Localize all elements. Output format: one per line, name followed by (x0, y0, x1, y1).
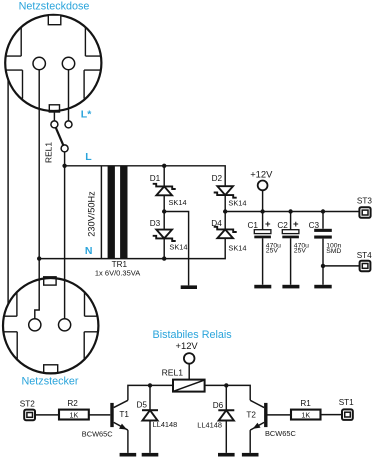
svg-text:ST3: ST3 (357, 196, 372, 205)
svg-text:R2: R2 (67, 399, 78, 408)
svg-text:25V: 25V (294, 247, 307, 254)
transformer TR1 primary side line (100, 166, 102, 259)
relay contact REL1 pole (61, 145, 68, 152)
wire: R2 to T1 base (89, 414, 111, 416)
svg-text:SMD: SMD (326, 248, 341, 255)
transistor T1 (BCW65C) (110, 403, 113, 427)
wire N bottom rail (39, 238, 225, 258)
connector ST1 (342, 409, 353, 420)
terminal +12V (relay) (184, 353, 195, 364)
plug pin right (59, 319, 71, 331)
wire +12V rail (225, 211, 359, 213)
svg-text:C2: C2 (277, 221, 288, 230)
wire: terminal to relay coil (188, 364, 190, 380)
socket left cutout (6, 27, 23, 98)
diode D2 (SK14, cathode down) (217, 186, 233, 195)
wire stub: socket bottom notch to left contact (53, 111, 55, 121)
diode D6 (LL4148) (225, 385, 227, 453)
svg-text:L: L (85, 151, 92, 163)
wire N: socket left hole down to N junction (38, 70, 40, 259)
plug left cutout (3, 292, 17, 359)
relay coil REL1 (173, 380, 205, 392)
connector ST4 (360, 261, 371, 272)
diode D1 (SK14, cathode up) (153, 184, 176, 189)
svg-text:LL4148: LL4148 (197, 421, 222, 430)
ground (bridge) (181, 285, 197, 289)
node ST4 junction (321, 264, 325, 268)
plug right cutout (84, 292, 98, 359)
node N junction (37, 256, 41, 260)
diode D4 (SK14, cathode up) (214, 227, 237, 232)
connector ST3 (359, 207, 370, 218)
wire: coil right to T2 collector (205, 385, 251, 400)
svg-text:+12V: +12V (176, 340, 199, 351)
relay contact blade (56, 127, 64, 146)
ground (C3) (314, 285, 331, 289)
svg-text:ST2: ST2 (20, 400, 35, 409)
wire L: top rail to bridge (65, 166, 226, 186)
svg-text:+: + (293, 219, 299, 230)
svg-text:ST4: ST4 (357, 251, 372, 260)
node rail C1 (260, 209, 264, 213)
svg-text:Netzsteckdose: Netzsteckdose (19, 1, 90, 13)
plug top notch (44, 277, 56, 285)
socket right cutout (84, 27, 101, 98)
svg-text:T2: T2 (246, 411, 256, 420)
svg-text:ST1: ST1 (339, 398, 354, 407)
wire: T1 emitter to ground (127, 430, 129, 453)
ground (C1) (254, 285, 271, 289)
wire: T2 base to R1 (268, 414, 292, 416)
node D1 top junction (162, 164, 166, 168)
wire: switch pole down to plug right pin (64, 152, 66, 319)
wire: bridge mid to ground (164, 212, 188, 286)
plug pin left (29, 319, 41, 331)
node rail C3 (321, 209, 325, 213)
wire: secondary top to D1 (163, 166, 165, 187)
svg-text:+: + (265, 219, 271, 230)
resistor R2 (59, 410, 89, 420)
svg-text:1K: 1K (70, 411, 79, 420)
ground (C2) (282, 285, 299, 289)
svg-text:BCW65C: BCW65C (82, 429, 113, 438)
capacitor C3 (322, 212, 324, 285)
diode D5 (LL4148) (149, 385, 151, 453)
wire: N junction down to plug left pin (35, 259, 39, 319)
svg-text:N: N (85, 245, 93, 257)
svg-text:D3: D3 (150, 219, 161, 228)
node D3 bottom junction (162, 256, 166, 260)
svg-text:SK14: SK14 (169, 198, 187, 207)
ground (D5) (142, 453, 159, 457)
wire: +12V terminal to rail (262, 190, 264, 211)
wire: R1 to ST1 (321, 414, 343, 416)
svg-text:Netzstecker: Netzstecker (22, 376, 79, 388)
wire: ST2 to R2 (35, 414, 59, 416)
svg-text:T1: T1 (119, 410, 129, 419)
resistor R1 (291, 410, 321, 420)
svg-text:SK14: SK14 (169, 242, 187, 251)
svg-text:C1: C1 (248, 221, 259, 230)
relay contact REL1 fixed right (65, 121, 72, 128)
ground (T2) (242, 453, 259, 457)
node bridge right mid (223, 209, 227, 213)
socket bottom notch (49, 105, 59, 112)
node bridge left mid (162, 209, 166, 213)
svg-text:BCW65C: BCW65C (265, 429, 296, 438)
plug bottom notch (44, 365, 58, 373)
wire earth: socket to plug (7, 80, 9, 305)
ground (D6) (218, 453, 235, 457)
node D5 junction (148, 383, 152, 387)
plug P1 outline (3, 278, 98, 373)
svg-text:D1: D1 (150, 174, 161, 183)
svg-text:SK14: SK14 (228, 198, 246, 207)
socket J1 outline (5, 15, 101, 111)
svg-text:D2: D2 (212, 174, 223, 183)
svg-text:D6: D6 (213, 401, 224, 410)
svg-text:+12V: +12V (250, 169, 273, 180)
transformer TR1 primary bar (108, 166, 115, 258)
node D6 junction (224, 383, 228, 387)
wire: D2 to rail node (224, 195, 226, 229)
svg-text:Bistabiles Relais: Bistabiles Relais (153, 329, 233, 341)
svg-text:SK14: SK14 (228, 243, 246, 252)
ground (T1) (120, 453, 137, 457)
svg-text:1K: 1K (301, 410, 310, 419)
wire: socket right hole down to switch contact (68, 70, 70, 121)
svg-text:R1: R1 (300, 399, 311, 408)
svg-text:D4: D4 (211, 219, 222, 228)
connector ST2 (24, 410, 35, 421)
relay contact REL1 fixed left (51, 121, 58, 128)
transformer TR1 secondary bar (120, 166, 127, 258)
wire: T2 emitter to ground (249, 430, 251, 453)
socket hole left (33, 57, 45, 69)
wire: D1 to mid node to D3 (163, 195, 165, 229)
svg-text:25V: 25V (266, 247, 279, 254)
terminal +12V (top) (258, 181, 268, 191)
node rail C2 (288, 209, 292, 213)
svg-text:D5: D5 (137, 400, 148, 409)
socket hole right (62, 57, 74, 69)
svg-text:REL1: REL1 (162, 368, 184, 378)
diode D3 (SK14, cathode down) (156, 230, 172, 239)
wire: coil left to T1 collector (128, 385, 173, 400)
svg-text:LL4148: LL4148 (153, 420, 178, 429)
socket top notch (48, 15, 61, 25)
svg-text:1x 6V/0.35VA: 1x 6V/0.35VA (95, 268, 140, 277)
wire: D3 to bottom rail (163, 238, 165, 258)
svg-text:230V/50Hz: 230V/50Hz (86, 191, 96, 237)
capacitor C2 (290, 212, 292, 285)
svg-text:C3: C3 (309, 221, 320, 230)
node L junction (62, 164, 66, 168)
capacitor C1 (262, 212, 264, 285)
transistor T2 (BCW65C) (264, 403, 267, 427)
svg-text:L*: L* (81, 109, 92, 121)
svg-text:REL1: REL1 (43, 142, 53, 163)
wire: C3 lower to ST4 (323, 265, 360, 267)
